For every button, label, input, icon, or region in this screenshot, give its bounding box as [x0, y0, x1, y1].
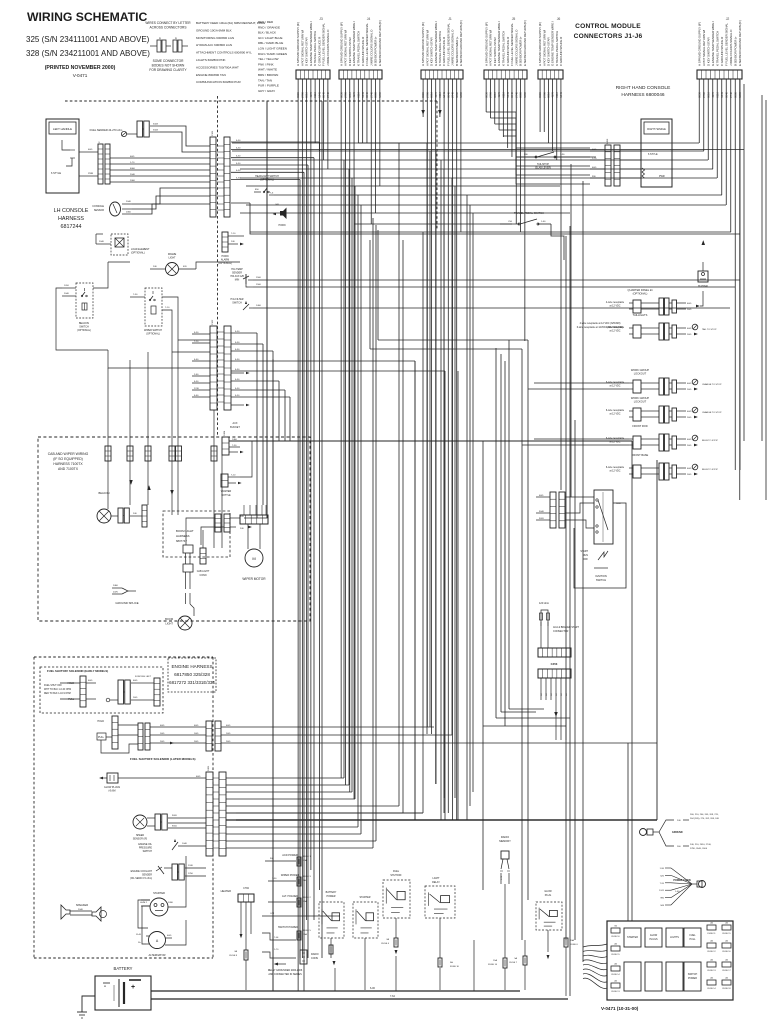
svg-text:240, 210, 2610, 2740,: 240, 210, 2610, 2740,	[690, 844, 712, 846]
svg-text:1240: 1240	[188, 865, 194, 867]
svg-text:2HD: 2HD	[687, 474, 692, 476]
connector J6 pin labels	[538, 21, 563, 66]
svg-text:7-10: 7-10	[231, 475, 236, 477]
svg-text:at 12 VDC: at 12 VDC	[609, 385, 620, 388]
washer bottle connector	[221, 441, 252, 497]
svg-text:FUEL: FUEL	[393, 870, 400, 873]
connector J1 pin labels	[421, 20, 463, 66]
svg-text:C401: C401	[208, 765, 210, 771]
svg-text:HEATER: HEATER	[221, 889, 231, 893]
relay grounded note	[268, 963, 303, 977]
connector J4 body	[339, 70, 382, 79]
svg-text:1-70: 1-70	[592, 158, 597, 160]
taillights extra note	[577, 322, 624, 329]
svg-text:LGN / LIGHT GREEN: LGN / LIGHT GREEN	[258, 47, 287, 51]
fuel sender	[90, 121, 210, 152]
svg-text:260, 210, 264, 265, 269, 270,: 260, 210, 264, 265, 269, 270,	[690, 814, 719, 816]
svg-text:MONITORING 600/800 LGN: MONITORING 600/800 LGN	[196, 36, 234, 40]
wire bundle from connector J3	[298, 79, 328, 991]
svg-text:2HD: 2HD	[194, 741, 199, 743]
svg-text:J6: J6	[557, 17, 561, 21]
wiper switch (optional)	[130, 288, 178, 352]
corner turns at forest bottoms	[483, 709, 570, 726]
svg-text:POWER: POWER	[688, 977, 697, 980]
power chain tree	[659, 868, 705, 907]
svg-text:PNK / PINK: PNK / PINK	[258, 62, 274, 66]
glow plug relay	[536, 890, 562, 959]
svg-text:ATTACHMENT CONTROLS 600/800 HY: ATTACHMENT CONTROLS 600/800 HYL	[196, 51, 252, 55]
svg-text:J WIRE COLORS SIGNAL O: J WIRE COLORS SIGNAL O	[326, 29, 330, 66]
svg-text:CHARGE TO STOP: CHARGE TO STOP	[702, 383, 722, 386]
boom light lamp	[165, 604, 194, 630]
svg-text:4HD: 4HD	[592, 149, 597, 151]
svg-text:TAILLIGHTS: TAILLIGHTS	[633, 313, 648, 317]
svg-text:(OPTIONAL): (OPTIONAL)	[146, 333, 160, 336]
svg-text:4HD: 4HD	[687, 328, 692, 330]
svg-text:PLUGS: PLUGS	[649, 938, 658, 941]
svg-text:4HD: 4HD	[226, 725, 231, 727]
svg-text:PUR / PURPLE: PUR / PURPLE	[258, 84, 279, 88]
svg-text:PWR: PWR	[659, 175, 665, 178]
title block	[26, 10, 150, 78]
svg-text:(SLAB LEVER): (SLAB LEVER)	[535, 167, 551, 170]
start run off labels	[580, 550, 608, 561]
svg-text:7-30: 7-30	[232, 445, 237, 447]
right edge rails	[700, 80, 766, 500]
svg-text:CONN: CONN	[311, 957, 318, 960]
svg-text:WHT / WHITE: WHT / WHITE	[258, 68, 277, 72]
svg-text:STARTER: STARTER	[627, 936, 638, 939]
alt holder fuse 2	[268, 895, 311, 907]
starter motor	[140, 868, 176, 916]
svg-text:SWITCH POWER: SWITCH POWER	[278, 926, 298, 929]
starter alternator loop wires	[133, 856, 186, 960]
svg-text:6-50: 6-50	[235, 342, 240, 344]
svg-text:FUSE 15: FUSE 15	[611, 954, 620, 956]
CAN wires down	[541, 632, 568, 904]
boom light harness dashed box	[163, 511, 230, 557]
fuse panel small fuses left column	[611, 925, 620, 994]
svg-text:C456: C456	[607, 138, 609, 144]
horn	[273, 200, 296, 227]
svg-text:BODIES NOT SHOWN: BODIES NOT SHOWN	[152, 64, 185, 68]
svg-text:WASHER: WASHER	[221, 490, 232, 493]
svg-text:ALT. HOLDER: ALT. HOLDER	[282, 895, 298, 898]
beacon lamp	[97, 491, 147, 527]
svg-text:(OIL SEND 0.5 ohm): (OIL SEND 0.5 ohm)	[130, 877, 152, 880]
main bus wire y820	[226, 460, 657, 820]
svg-text:(OPTIONAL): (OPTIONAL)	[131, 252, 145, 255]
right handle module box	[641, 119, 672, 187]
svg-text:CONTROL MODULE: CONTROL MODULE	[575, 23, 641, 30]
svg-text:7-50: 7-50	[272, 878, 277, 880]
svg-text:GROUND: GROUND	[672, 831, 683, 834]
frame light	[150, 253, 240, 276]
svg-text:J WIRE COLORS SIGNAL O: J WIRE COLORS SIGNAL O	[729, 29, 733, 66]
svg-text:ACD POWER: ACD POWER	[282, 854, 298, 857]
svg-text:K TRAVEL PEDAL SWITCH: K TRAVEL PEDAL SWITCH	[715, 31, 719, 66]
svg-text:RIGHT HANDLE: RIGHT HANDLE	[647, 128, 666, 131]
svg-text:RIGHT HAND CONSOLE: RIGHT HAND CONSOLE	[616, 85, 671, 91]
vertical wires right console down	[561, 159, 583, 520]
control module connectors title	[574, 23, 643, 40]
radio memory	[488, 835, 511, 990]
svg-text:FUEL SHUT OFF: FUEL SHUT OFF	[44, 685, 62, 687]
svg-text:at 12 VDC: at 12 VDC	[609, 441, 620, 444]
svg-text:HOLD: HOLD	[97, 720, 104, 723]
svg-text:FUSE 2: FUSE 2	[303, 897, 311, 899]
heater connector	[221, 887, 254, 990]
dashed boundary right drop	[436, 101, 438, 230]
svg-text:MEMORY: MEMORY	[499, 839, 511, 843]
svg-text:20A: 20A	[303, 859, 307, 862]
svg-text:E SENSOR GROUND RETURN (IF): E SENSOR GROUND RETURN (IF)	[459, 20, 463, 66]
svg-text:BRN / BROWN: BRN / BROWN	[258, 73, 278, 77]
svg-text:E SENSOR GROUND RETURN (IF): E SENSOR GROUND RETURN (IF)	[378, 20, 382, 66]
svg-text:2040: 2040	[130, 174, 136, 176]
wire abbreviation legend list	[258, 20, 287, 93]
radio conn	[262, 949, 319, 964]
option row taillights	[606, 313, 717, 340]
svg-text:25A: 25A	[303, 900, 307, 903]
svg-text:FUSE 16: FUSE 16	[722, 951, 731, 953]
svg-text:2-60: 2-60	[194, 374, 199, 376]
starter relay	[353, 896, 378, 990]
svg-text:A POT SIGNAL RETURN WI: A POT SIGNAL RETURN WI	[702, 30, 706, 66]
wire bundle from connector J1	[421, 79, 461, 820]
svg-text:4HD: 4HD	[196, 776, 201, 778]
svg-text:V-0471 (10-31-00): V-0471 (10-31-00)	[601, 1006, 639, 1011]
svg-text:LIGHT: LIGHT	[168, 257, 176, 260]
svg-text:2HD: 2HD	[687, 334, 692, 336]
console sensor	[92, 201, 132, 216]
svg-text:BLK / BLACK: BLK / BLACK	[258, 31, 276, 35]
svg-text:ALTERNATOR: ALTERNATOR	[148, 953, 165, 957]
svg-text:AND CONNECTED IN SERIES: AND CONNECTED IN SERIES	[268, 973, 302, 976]
svg-text:2470: 2470	[113, 592, 119, 594]
svg-text:4HD: 4HD	[88, 680, 93, 682]
left handle connector pair	[79, 141, 110, 184]
svg-text:6-50: 6-50	[194, 381, 199, 383]
svg-text:C GROUND SPLICE R: C GROUND SPLICE R	[720, 36, 724, 66]
connector J5 wire number labels	[484, 91, 527, 97]
connector J6 wire number labels	[538, 91, 563, 97]
engine harness dashed boundary	[34, 657, 213, 958]
svg-text:1-70: 1-70	[274, 949, 279, 951]
svg-text:2HD: 2HD	[687, 389, 692, 391]
svg-text:FUSE 6: FUSE 6	[570, 944, 578, 946]
svg-text:CAB LIGHT: CAB LIGHT	[197, 570, 210, 573]
svg-text:2HD: 2HD	[687, 417, 692, 419]
svg-text:4-wire receptacle at 12 VDC (3: 4-wire receptacle at 12 VDC (325/328)	[580, 322, 621, 325]
svg-text:LH CONSOLE: LH CONSOLE	[54, 208, 89, 214]
svg-text:C102: C102	[212, 319, 214, 325]
svg-text:A: A	[175, 36, 177, 40]
glow plug	[99, 773, 206, 793]
console connector C456	[590, 138, 641, 186]
svg-text:LOCKOUT: LOCKOUT	[634, 372, 647, 376]
svg-text:TRAVEL PEDAL SWITCH: TRAVEL PEDAL SWITCH	[514, 211, 544, 215]
svg-text:CONN: CONN	[199, 574, 206, 577]
svg-text:E SENSOR GROUND RETURN (IF): E SENSOR GROUND RETURN (IF)	[523, 20, 527, 66]
svg-text:BOOM LIGHT: BOOM LIGHT	[176, 529, 194, 533]
fuse panel box	[607, 921, 733, 1000]
svg-text:D KEY SWITCH STAR: D KEY SWITCH STAR	[706, 37, 710, 66]
wire bundle from connector J5	[486, 79, 590, 341]
svg-text:BOTTLE: BOTTLE	[221, 494, 231, 497]
svg-text:FUSE 7: FUSE 7	[509, 962, 517, 964]
svg-text:LEFT HANDLE: LEFT HANDLE	[53, 127, 72, 131]
battery ground symbol	[77, 1012, 87, 1018]
svg-text:GROUND SPLICE: GROUND SPLICE	[115, 601, 138, 605]
svg-text:120 ohm: 120 ohm	[539, 601, 549, 605]
svg-text:4HD: 4HD	[687, 383, 692, 385]
svg-text:6 STYLE: 6 STYLE	[648, 153, 658, 156]
svg-text:4HD: 4HD	[687, 439, 692, 441]
svg-text:LIGHT: LIGHT	[432, 877, 440, 880]
svg-text:H SPN MD GROUND SUPPLY (IF): H SPN MD GROUND SUPPLY (IF)	[697, 22, 701, 66]
svg-text:BATTERY: BATTERY	[114, 966, 133, 971]
svg-text:6807747: 6807747	[176, 539, 187, 543]
svg-text:6-50: 6-50	[236, 147, 241, 149]
svg-text:FUSE 15: FUSE 15	[722, 933, 731, 935]
svg-text:1500: 1500	[256, 284, 262, 286]
svg-text:9040: 9040	[539, 511, 545, 513]
svg-text:1-60: 1-60	[541, 221, 546, 223]
svg-text:6-60: 6-60	[194, 359, 199, 361]
svg-text:R-40: R-40	[136, 934, 142, 936]
svg-text:TAIL TO STOP: TAIL TO STOP	[702, 328, 717, 331]
svg-text:4HD: 4HD	[130, 156, 135, 158]
svg-text:(4) 6M: (4) 6M	[109, 790, 116, 793]
fuel shutoff relay	[381, 870, 410, 954]
svg-text:ENGINE HARNESS: ENGINE HARNESS	[171, 664, 212, 669]
svg-text:HYDRAULIC 600/800 LGN: HYDRAULIC 600/800 LGN	[196, 43, 232, 47]
svg-text:2780, 2640, 2000: 2780, 2640, 2000	[690, 848, 708, 850]
tail/stop switch (slab lever)	[516, 152, 596, 170]
staircase wires from engine connector to top	[226, 218, 403, 848]
svg-text:C784: C784	[243, 887, 249, 890]
svg-text:M: M	[252, 556, 255, 561]
svg-text:6-50: 6-50	[235, 369, 240, 371]
svg-text:15A: 15A	[303, 933, 307, 936]
svg-text:CONNECTORS J1-J6: CONNECTORS J1-J6	[574, 33, 643, 40]
svg-text:6-50: 6-50	[235, 331, 240, 333]
svg-text:at 12 VDC: at 12 VDC	[609, 330, 620, 333]
svg-text:FUSE 13: FUSE 13	[611, 991, 620, 993]
key switch connector strips	[536, 492, 565, 528]
svg-text:FUSE 10: FUSE 10	[450, 966, 460, 968]
connector J5 pin labels	[484, 20, 527, 66]
right hand console harness label	[616, 85, 671, 98]
riser wires center	[344, 143, 473, 834]
LH console harness label	[54, 208, 89, 230]
option row front base	[606, 453, 718, 480]
connector J3 wire number labels	[296, 91, 330, 97]
hvac filter switch	[231, 298, 730, 310]
svg-text:WIRING SCHEMATIC: WIRING SCHEMATIC	[27, 10, 147, 24]
svg-text:6-50: 6-50	[236, 156, 241, 158]
svg-text:FORCING LEFT: FORCING LEFT	[135, 676, 152, 678]
svg-text:2060: 2060	[126, 212, 132, 214]
wires from later solenoid connector to risers	[221, 725, 657, 743]
svg-text:WORK GROUP: WORK GROUP	[631, 396, 650, 400]
svg-text:SWITCH: SWITCH	[596, 578, 606, 582]
svg-text:FUSE 14: FUSE 14	[611, 974, 620, 976]
wires dropping into cab box	[0, 0, 1, 1]
svg-text:1241: 1241	[659, 890, 665, 892]
fuel shutoff solenoid later models	[97, 716, 221, 761]
cab light conn	[197, 530, 210, 577]
svg-text:2HD: 2HD	[226, 741, 231, 743]
horn alarm connector (optional)	[218, 232, 244, 265]
svg-text:START: START	[580, 550, 588, 553]
svg-text:FRONT ROD: FRONT ROD	[632, 424, 647, 428]
load element (optional)	[96, 234, 150, 255]
svg-text:1500: 1500	[256, 277, 262, 279]
svg-text:2040: 2040	[99, 241, 105, 243]
svg-text:BATTERY FEED 10GA (6A) 6MM RED: BATTERY FEED 10GA (6A) 6MM RED/WHT, FRAG	[196, 21, 266, 25]
travel pedal switch	[500, 211, 564, 260]
boom harness connectors	[186, 101, 267, 545]
svg-text:1040: 1040	[182, 843, 188, 845]
dashed harness boundary vertical	[217, 96, 219, 437]
svg-text:WIPER MOTOR: WIPER MOTOR	[242, 577, 266, 581]
row connections to rails	[700, 291, 744, 471]
svg-text:WHT TO BLK 1-0.40 OHM: WHT TO BLK 1-0.40 OHM	[44, 689, 71, 691]
c/m wire	[262, 913, 340, 916]
svg-text:FUSE 14: FUSE 14	[707, 988, 716, 990]
svg-text:B SENSOR POWER (+: B SENSOR POWER (+	[733, 36, 737, 66]
svg-text:ENGINE 800/800 TAN: ENGINE 800/800 TAN	[196, 73, 226, 77]
svg-text:FOR DRAWING CLARITY: FOR DRAWING CLARITY	[149, 68, 187, 72]
svg-text:6-50: 6-50	[236, 140, 241, 142]
svg-text:C453: C453	[551, 662, 558, 666]
svg-text:ACROSS CONNECTORS: ACROSS CONNECTORS	[150, 26, 187, 30]
svg-text:7-10: 7-10	[165, 307, 170, 309]
svg-text:SPEAKER: SPEAKER	[76, 903, 88, 907]
lower long bus wires	[236, 743, 657, 820]
svg-text:20A: 20A	[570, 939, 574, 942]
svg-text:1400: 1400	[256, 305, 262, 307]
svg-text:1-90: 1-90	[560, 154, 565, 156]
connector J5 body	[484, 70, 527, 79]
fuse 7 5A	[509, 940, 527, 990]
svg-text:FUEL SHUTOFF SOLENOID (EARLY M: FUEL SHUTOFF SOLENOID (EARLY MODELS)	[47, 669, 108, 673]
svg-text:BULB TO STOP: BULB TO STOP	[702, 469, 718, 471]
svg-text:RADIO: RADIO	[311, 953, 319, 956]
svg-text:6-50: 6-50	[235, 349, 240, 351]
wire bundle from connector J4	[341, 79, 432, 806]
svg-text:3443: 3443	[153, 124, 159, 126]
connector J4 wire number labels	[339, 91, 382, 97]
svg-text:FRONT BASE: FRONT BASE	[632, 453, 649, 457]
work group feed wires	[522, 383, 629, 445]
svg-text:6-50: 6-50	[236, 170, 241, 172]
wires from C102 to right	[231, 331, 445, 991]
svg-text:OFF: OFF	[583, 558, 588, 561]
svg-text:V-0471: V-0471	[73, 73, 88, 78]
svg-text:2040: 2040	[78, 909, 84, 911]
svg-text:7-10: 7-10	[231, 233, 236, 235]
120 ohm resistor	[539, 601, 580, 633]
svg-text:HARNESS 6800046: HARNESS 6800046	[621, 92, 665, 98]
svg-text:9020: 9020	[172, 815, 178, 817]
svg-text:4HD: 4HD	[687, 468, 692, 470]
LH console connector strips C101	[210, 130, 230, 217]
speakers	[61, 903, 107, 921]
svg-text:6-50: 6-50	[235, 395, 240, 397]
engine connector strips C401	[206, 765, 226, 856]
svg-text:SWITCH: SWITCH	[688, 973, 698, 976]
svg-text:COMMUNICATION 600/800 PUR: COMMUNICATION 600/800 PUR	[196, 80, 241, 84]
svg-text:2460: 2460	[113, 585, 119, 587]
svg-text:PWR: PWR	[88, 173, 94, 175]
svg-text:4HD: 4HD	[687, 411, 692, 413]
wires from C101 to center	[231, 140, 744, 991]
svg-text:2HD: 2HD	[133, 697, 138, 699]
wires beacon/wiper to lower strips	[56, 262, 210, 368]
svg-text:TAN / TAN: TAN / TAN	[258, 78, 272, 82]
svg-text:BATTERY: BATTERY	[326, 891, 337, 894]
svg-text:at 12 VDC: at 12 VDC	[609, 305, 620, 308]
hvac temp sender	[230, 268, 740, 287]
wires into C102 left	[192, 332, 210, 397]
svg-text:6817850 325/328: 6817850 325/328	[174, 672, 210, 677]
svg-text:6817272 331/331E/334: 6817272 331/331E/334	[169, 680, 215, 685]
svg-text:7-04: 7-04	[274, 937, 279, 939]
svg-text:6-06: 6-06	[370, 987, 375, 990]
svg-text:GLOW: GLOW	[650, 934, 658, 937]
svg-text:7-50: 7-50	[133, 294, 138, 296]
svg-text:CHARGE TO STOP: CHARGE TO STOP	[702, 411, 722, 414]
svg-text:SWITCH: SWITCH	[232, 302, 242, 305]
svg-text:6-50: 6-50	[235, 379, 240, 381]
connector J2 pin labels	[697, 20, 742, 66]
fuse 6 20A	[564, 938, 578, 996]
svg-text:WIPER POWER: WIPER POWER	[281, 874, 300, 877]
svg-text:RUN: RUN	[583, 554, 588, 557]
svg-text:2HD: 2HD	[687, 309, 692, 311]
svg-text:DGN / DARK GREEN: DGN / DARK GREEN	[258, 52, 287, 56]
svg-text:FUSE 4: FUSE 4	[381, 943, 389, 945]
svg-text:-: -	[104, 984, 106, 990]
buzzer	[680, 262, 708, 288]
svg-text:PULL: PULL	[690, 938, 697, 941]
svg-text:1250: 1250	[188, 873, 194, 875]
svg-text:GROUND 10GA 6MM BLK: GROUND 10GA 6MM BLK	[196, 28, 232, 32]
svg-text:C/M: C/M	[270, 913, 274, 915]
svg-text:GLOW: GLOW	[544, 890, 552, 893]
connector J1 body	[421, 70, 463, 79]
engine coolant sender	[130, 864, 206, 880]
svg-text:HORN: HORN	[278, 224, 285, 227]
boom light connector small	[183, 545, 193, 604]
svg-text:J4: J4	[367, 17, 371, 21]
svg-text:STARTER: STARTER	[153, 891, 165, 895]
svg-text:(PRINTED NOVEMBER 2000): (PRINTED NOVEMBER 2000)	[45, 65, 116, 71]
long horizontal harness wires	[232, 143, 731, 232]
svg-text:1010: 1010	[64, 285, 70, 287]
long horizontals upper mid connectors	[370, 230, 528, 349]
bus wire y813	[226, 812, 423, 814]
svg-text:7-20: 7-20	[660, 883, 665, 885]
svg-text:+: +	[131, 984, 135, 991]
svg-text:RND / ORANGE: RND / ORANGE	[258, 25, 280, 29]
svg-text:15A: 15A	[493, 959, 497, 962]
svg-text:2040: 2040	[64, 293, 70, 295]
svg-text:RED / RED: RED / RED	[258, 20, 274, 24]
